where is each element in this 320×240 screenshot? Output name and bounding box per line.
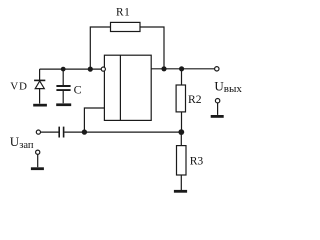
svg-text:VD: VD bbox=[10, 80, 27, 92]
svg-text:R1: R1 bbox=[116, 7, 130, 19]
svg-text:R3: R3 bbox=[190, 154, 204, 167]
svg-text:R2: R2 bbox=[188, 93, 202, 106]
svg-text:C: C bbox=[74, 82, 82, 96]
